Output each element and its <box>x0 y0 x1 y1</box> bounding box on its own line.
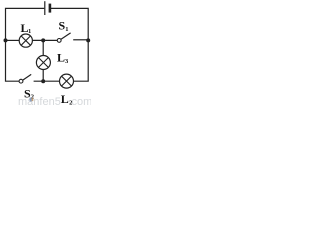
svg-text:L1: L1 <box>21 21 32 35</box>
svg-text:com: com <box>72 96 92 106</box>
svg-text:manfen5: manfen5 <box>18 96 61 106</box>
svg-text:S1: S1 <box>59 19 69 34</box>
svg-text:L3: L3 <box>57 51 69 66</box>
